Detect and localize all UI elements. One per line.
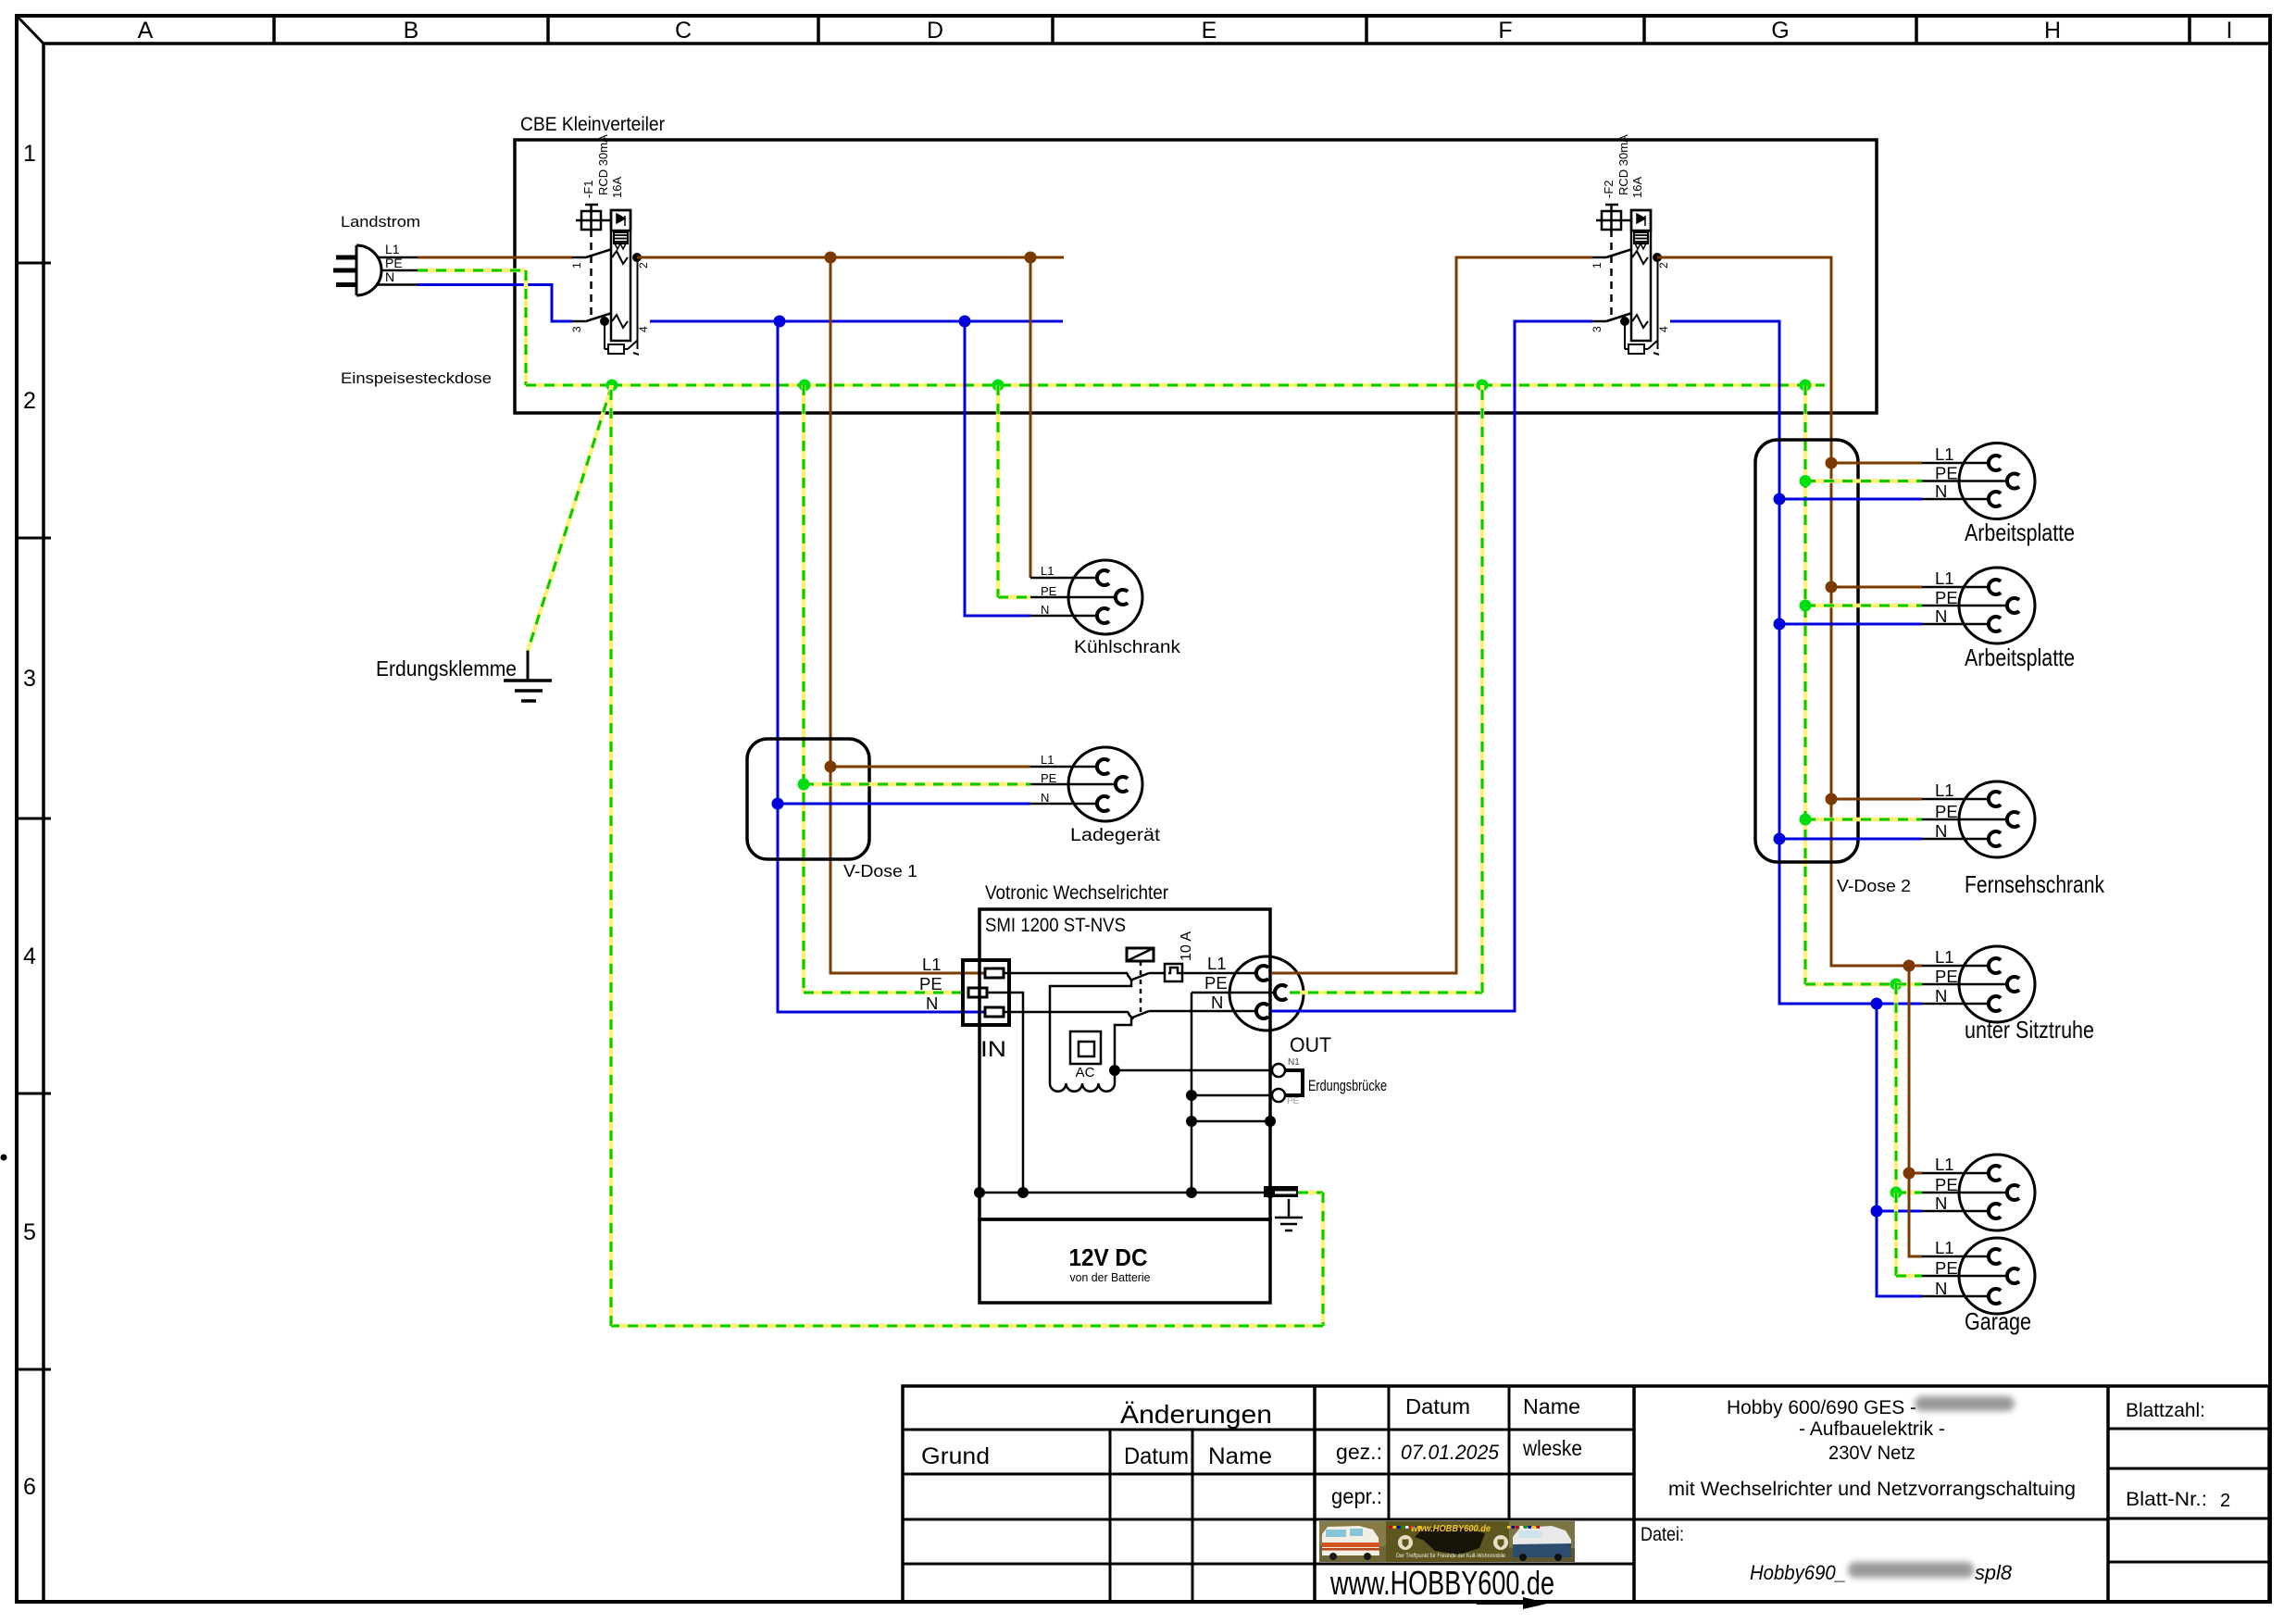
socket unter Sitztruhe L1 contact prong (1989, 958, 2001, 973)
wire PE green to Arbeitsplatte2 (1805, 604, 1922, 608)
svg-text:L1: L1 (1935, 568, 1954, 588)
junction dot brown unter Sitztruhe (1903, 960, 1915, 972)
junction dot green Arbeitsplatte2 (1800, 600, 1812, 612)
socket Ladegerät PE stub wire (1030, 783, 1116, 786)
junction dot pole 2 -F2 (1653, 253, 1662, 262)
-F2 magnetic trip element (1631, 210, 1651, 231)
svg-text:Blattzahl:: Blattzahl: (2126, 1400, 2205, 1421)
svg-text:Änderungen: Änderungen (1120, 1400, 1272, 1429)
frame header band bottom line (44, 42, 2270, 45)
terminal PE (Erdungsbruecke) (1272, 1089, 1285, 1102)
wire L1 inside inverter to changeover (1004, 972, 1128, 975)
title block outer (903, 1386, 2269, 1602)
socket Ladegerät L1 contact prong (1097, 759, 1109, 774)
wire stubs unter Sitztruhe (1909, 965, 1922, 968)
svg-text:SMI 1200 ST-NVS: SMI 1200 ST-NVS (985, 915, 1126, 936)
wire L1 brown feeder x=897 (830, 257, 985, 973)
wire L1 brown OUT to F2 (1271, 257, 1592, 973)
junction dot brown Fernsehschrank (1826, 793, 1838, 806)
socket Arbeitsplatte1 L1 contact prong (1989, 456, 2001, 470)
-F2 test resistor (1628, 344, 1644, 354)
title block horizontals left (903, 1429, 1634, 1431)
svg-text:6: 6 (23, 1474, 36, 1500)
wire N blue to Arbeitsplatte1 (1779, 498, 1922, 501)
socket Kühlschrank PE stub wire (1030, 596, 1116, 599)
wire N blue to Fernsehschrank (1779, 838, 1922, 841)
svg-text:Landstrom: Landstrom (341, 213, 420, 231)
junction dot PE bus x=1078 (992, 380, 1004, 392)
svg-text:5: 5 (23, 1219, 36, 1245)
socket Arbeitsplatte1 N stub wire (1922, 498, 1989, 501)
svg-text:PE: PE (1287, 1096, 1300, 1106)
junction dot 1287,1211 (1186, 1116, 1197, 1127)
frame left band right line (42, 44, 45, 1602)
junction dot bus 1058 (974, 1187, 985, 1198)
plug stub PE (381, 269, 418, 272)
socket Ladegerät: circle (1068, 747, 1142, 821)
junction dot blue bus x=1042 (959, 316, 971, 328)
svg-text:L1: L1 (922, 955, 942, 974)
-F1 test switch blade (624, 348, 628, 350)
socket unter Sitztruhe N stub wire (1922, 1003, 1989, 1006)
junction dot bus 1287 (1186, 1187, 1197, 1198)
junction dot PE bus x=869 (799, 380, 811, 392)
svg-text:Name: Name (1523, 1394, 1580, 1418)
wire N blue F2 to V-Dose2 (1670, 321, 1877, 1004)
svg-text:mit Wechselrichter und Netzvor: mit Wechselrichter und Netzvorrangschalt… (1668, 1479, 2076, 1500)
junction dot green V-Dose1 (798, 779, 810, 791)
socket Ladegerät L1 stub wire (1030, 766, 1097, 768)
socket Kühlschrank L1 contact prong (1097, 570, 1109, 585)
socket unter Sitztruhe: circle (1959, 946, 2035, 1022)
svg-text:Blatt-Nr.:: Blatt-Nr.: (2126, 1489, 2207, 1510)
svg-text:Datum: Datum (1405, 1394, 1470, 1418)
socket Kühlschrank L1 stub wire (1030, 577, 1097, 580)
svg-text:2: 2 (1657, 262, 1670, 269)
svg-text:N: N (385, 269, 394, 284)
frame corner diagonal (17, 16, 44, 44)
svg-text:L1: L1 (1041, 564, 1054, 578)
wire L1 brown to Ladegeraet (830, 766, 1030, 768)
-F1 magnetic trip element (611, 210, 630, 231)
svg-text:4: 4 (1657, 326, 1670, 332)
junction dot blue Garage1 (1871, 1206, 1883, 1218)
svg-text:www.HOBBY600.de: www.HOBBY600.de (1411, 1523, 1491, 1534)
junction dot green Fernsehschrank (1800, 814, 1812, 826)
-F2 breaker body (1631, 210, 1651, 341)
header column separator x=884 (817, 16, 820, 44)
svg-text:Arbeitsplatte: Arbeitsplatte (1965, 643, 2075, 671)
wire PE inside inverter down to chassis bus (987, 993, 1023, 1193)
junction dot brown Arbeitsplatte1 (1826, 457, 1838, 469)
svg-text:07.01.2025: 07.01.2025 (1401, 1441, 1500, 1464)
svg-text:V-Dose 1: V-Dose 1 (843, 862, 917, 881)
blurred filename part (1848, 1562, 1974, 1578)
svg-text:1: 1 (1591, 262, 1603, 269)
svg-text:L1: L1 (1935, 1155, 1954, 1174)
IN contact slot PE (968, 988, 987, 997)
wire L1 brown to Arbeitsplatte1 (1831, 462, 1922, 465)
wire L1 brown down to Garage2 (1909, 1173, 1922, 1256)
socket Garage2 N contact prong (1989, 1289, 2001, 1304)
socket Garage2 N stub wire (1922, 1295, 1989, 1298)
wire L1 brown F2 to V-Dose2 (1657, 257, 1909, 966)
changeover switch L1 blade (1132, 973, 1149, 980)
svg-text:IN: IN (980, 1037, 1006, 1062)
socket unter Sitztruhe L1 stub wire (1922, 965, 1989, 968)
svg-text:PE: PE (1935, 1175, 1958, 1194)
svg-text:wleske: wleske (1522, 1436, 1582, 1460)
svg-text:2: 2 (2220, 1491, 2230, 1511)
wire PE green down to Garage1 (1894, 984, 1899, 1193)
wire PE green OUT to PE bus (1290, 991, 1482, 995)
svg-text:AC: AC (1076, 1065, 1095, 1081)
socket Fernsehschrank N contact prong (1989, 831, 2001, 846)
socket Garage1 PE contact prong (2007, 1185, 2019, 1200)
AC throw wire N (1115, 1018, 1131, 1083)
socket unter Sitztruhe PE stub wire (1922, 983, 2007, 986)
svg-text:gepr.:: gepr.: (1331, 1484, 1382, 1508)
wire L1 brown to Fernsehschrank (1831, 798, 1922, 801)
svg-text:Grund: Grund (921, 1443, 990, 1469)
socket Arbeitsplatte2 L1 stub wire (1922, 586, 1989, 589)
IN contact slot N (985, 1007, 1004, 1017)
svg-text:N: N (1935, 821, 1947, 841)
svg-text:N: N (1041, 791, 1049, 805)
socket Garage1 N stub wire (1922, 1210, 1989, 1213)
wire N blue feeder x=1042 (965, 321, 1030, 616)
wire PE diagonal to earth clamp (528, 385, 612, 651)
junction dot PE bus x=661 (606, 380, 618, 392)
terminal N1 (1272, 1064, 1285, 1077)
socket unter Sitztruhe PE contact prong (2007, 977, 2019, 992)
socket Fernsehschrank PE stub wire (1922, 818, 2007, 821)
plug stub L1 (377, 256, 418, 259)
socket Garage1 L1 stub wire (1922, 1172, 1989, 1175)
OUT N prong (1256, 1004, 1268, 1018)
svg-text:Kühlschrank: Kühlschrank (1074, 638, 1181, 657)
socket Arbeitsplatte1 PE contact prong (2007, 474, 2019, 489)
socket Fernsehschrank: circle (1959, 781, 2035, 857)
header column separator x=592 (546, 16, 550, 44)
relay coil K1 (1127, 948, 1154, 961)
svg-text:Erdungsbrücke: Erdungsbrücke (1308, 1077, 1387, 1094)
wire L1 brown to unter Sitztruhe (1830, 839, 1832, 966)
wire PE green-yellow bus (612, 383, 1825, 388)
wire PE corner to OUT socket (1192, 992, 1275, 994)
wire L1 brown plug to F1 (418, 256, 572, 259)
socket Ladegerät N contact prong (1097, 796, 1109, 811)
svg-text:1: 1 (23, 141, 36, 167)
wire PE vertical to PE terminal (1192, 1094, 1272, 1097)
socket Arbeitsplatte1 PE stub wire (1922, 480, 2007, 482)
svg-text:Garage: Garage (1965, 1307, 2031, 1335)
svg-text:L1: L1 (1935, 947, 1954, 967)
header column separator x=296 (272, 16, 276, 44)
wire PE green to Ladegeraet (804, 782, 1030, 787)
wire L1 changeover to fuse (1149, 972, 1165, 975)
svg-text:- Aufbauelektrik -: - Aufbauelektrik - (1799, 1418, 1945, 1440)
svg-text:OUT: OUT (1290, 1033, 1331, 1056)
svg-text:Datum: Datum (1124, 1443, 1189, 1469)
svg-text:N: N (926, 993, 938, 1013)
svg-text:C: C (675, 18, 692, 44)
svg-text:1: 1 (570, 262, 583, 269)
junction box V-Dose 2 (1755, 440, 1858, 862)
-F2 mechanical link dashed (1610, 230, 1613, 316)
OUT PE prong (1275, 985, 1287, 1000)
wire N blue to Ladegeraet (778, 803, 1030, 806)
svg-text:Erdungsklemme: Erdungsklemme (376, 656, 517, 681)
header column separator x=1137 (1051, 16, 1054, 44)
wire N blue to Arbeitsplatte2 (1779, 623, 1922, 626)
junction dot 1370,1211 (1265, 1116, 1276, 1127)
-F1 test resistor (608, 344, 624, 354)
svg-text:PE: PE (1041, 771, 1057, 785)
-F1 pole 1-2 contact (572, 256, 586, 259)
svg-text:12V DC: 12V DC (1069, 1243, 1148, 1271)
header column separator x=1776 (1642, 16, 1646, 44)
left band row separator y=1479 (17, 1368, 51, 1371)
socket Garage2 PE stub wire (1922, 1275, 2007, 1278)
svg-text:3: 3 (23, 666, 36, 692)
junction dot bus 1105 (1017, 1187, 1029, 1198)
-F2 pole 1-2 contact (1592, 256, 1606, 259)
junction dot brown Garage1 (1903, 1168, 1915, 1180)
socket Fernsehschrank L1 contact prong (1989, 792, 2001, 806)
wire N1 from AC to Erdungsbruecke (1115, 1069, 1272, 1072)
wire PE green bus to V-Dose2 (1803, 385, 1808, 984)
-F2 test button (1602, 211, 1621, 230)
svg-text:N: N (1935, 481, 1947, 501)
junction dot green Arbeitsplatte1 (1800, 475, 1812, 487)
-F2 test circuit wire (1657, 257, 1659, 349)
socket Kühlschrank N stub wire (1030, 615, 1097, 618)
socket Fernsehschrank N stub wire (1922, 838, 1989, 841)
junction dot blue Arbeitsplatte2 (1774, 618, 1786, 631)
wire N blue down to Garage2 (1877, 1211, 1922, 1296)
socket Ladegerät PE contact prong (1116, 777, 1128, 792)
svg-text:unter Sitztruhe: unter Sitztruhe (1965, 1016, 2094, 1043)
stray dot left margin (1, 1155, 7, 1161)
svg-text:Ladegerät: Ladegerät (1070, 826, 1161, 845)
svg-text:Hobby690_: Hobby690_ (1750, 1561, 1846, 1584)
wire L1 fuse to OUT socket (1182, 972, 1257, 975)
socket Garage2 L1 stub wire (1922, 1255, 1989, 1258)
svg-text:A: A (138, 18, 154, 44)
AC throw wire L1 (1050, 980, 1131, 1083)
svg-text:2: 2 (23, 388, 36, 414)
svg-text:N1: N1 (1288, 1057, 1300, 1068)
wire L1 brown bus after F1 (637, 256, 1064, 259)
svg-text:L1: L1 (1041, 753, 1054, 767)
socket Garage1 N contact prong (1989, 1204, 2001, 1218)
svg-text:2: 2 (637, 262, 650, 269)
svg-text:gez.:: gez.: (1336, 1440, 1382, 1464)
junction dot pole 3 -F2 (1620, 317, 1629, 326)
socket Arbeitsplatte1 N contact prong (1989, 492, 2001, 506)
left band row separator y=884 (17, 818, 51, 820)
junction dot AC output (1109, 1065, 1120, 1076)
socket Arbeitsplatte1: circle (1959, 443, 2035, 519)
junction dot pole 3 -F1 (600, 317, 609, 326)
-F1 breaker body (611, 210, 630, 341)
wire OUT body earth down (1269, 1031, 1272, 1193)
junction dot PE bus x=1601 (1477, 380, 1489, 392)
header column separator x=1476 (1365, 16, 1368, 44)
svg-text:PE: PE (919, 974, 942, 993)
svg-text:-F2: -F2 (1602, 181, 1616, 199)
junction dot brown V-Dose1 (825, 761, 837, 773)
wire PE green-yellow chassis return loop (1298, 1191, 1323, 1195)
wire PE green-yellow plug to bus (418, 269, 526, 273)
socket Fernsehschrank PE contact prong (2007, 812, 2019, 827)
svg-text:Einspeisesteckdose: Einspeisesteckdose (341, 369, 492, 387)
svg-text:CBE Kleinverteiler: CBE Kleinverteiler (520, 114, 665, 135)
socket Arbeitsplatte2 PE stub wire (1922, 605, 2007, 607)
svg-text:N: N (1935, 986, 1947, 1006)
-F1 mechanical link dashed (590, 230, 593, 316)
wire PE green down to Garage2 (1894, 1193, 1899, 1276)
socket Arbeitsplatte2 N stub wire (1922, 623, 1989, 626)
header column separator x=2365 (2188, 16, 2191, 44)
wire PE green to Arbeitsplatte1 (1805, 479, 1922, 483)
left band row separator y=581 (17, 537, 51, 540)
socket Garage1 PE stub wire (1922, 1192, 2007, 1194)
svg-text:4: 4 (23, 943, 36, 969)
wire PE green to Fernsehschrank (1805, 818, 1922, 822)
inverter box SMI 1200 ST-NVS (980, 909, 1270, 1219)
socket Garage1 L1 contact prong (1989, 1166, 2001, 1181)
svg-text:230V Netz: 230V Netz (1828, 1443, 1915, 1464)
12V DC battery box (980, 1219, 1270, 1303)
wire N blue plug step to F1 (418, 285, 572, 322)
svg-text:N: N (1935, 1193, 1947, 1213)
wire PE green feeder x=1078 (996, 385, 1001, 597)
fuse F3 10A (1165, 964, 1182, 981)
junction dot blue unter Sitztruhe (1871, 998, 1883, 1010)
logo banner www.HOBBY600.de (1319, 1521, 1575, 1562)
junction box V-Dose 1 (747, 739, 869, 859)
socket Arbeitsplatte2: circle (1959, 568, 2035, 643)
junction dot green unter Sitztruhe (1890, 979, 1903, 991)
junction dot bus 1370 (1265, 1187, 1276, 1198)
wire L1 brown to Arbeitsplatte2 (1831, 586, 1922, 589)
svg-text:Der Treffpunkt für Freunde der: Der Treffpunkt für Freunde der Kult-Wohn… (1396, 1553, 1505, 1559)
svg-text:I: I (2227, 18, 2233, 44)
svg-text:V-Dose 2: V-Dose 2 (1837, 877, 1911, 895)
svg-text:PE: PE (1935, 967, 1958, 986)
wire PE green feeder x=868 (802, 385, 806, 993)
wire L1 brown feeder x=1113 (1029, 257, 1032, 578)
IN connector (963, 960, 1009, 1025)
svg-text:PE: PE (385, 256, 403, 270)
svg-text:G: G (1771, 18, 1789, 44)
changeover switch N blade (1132, 1011, 1149, 1018)
wire N changeover to OUT socket (1149, 1010, 1257, 1013)
plug prong L1 (336, 256, 356, 260)
junction dot blue Fernsehschrank (1774, 833, 1786, 845)
socket Ladegerät N stub wire (1030, 803, 1097, 806)
plug prong N (336, 282, 356, 287)
svg-text:PE: PE (1041, 584, 1057, 598)
svg-text:PE: PE (1935, 464, 1958, 483)
junction dot blue Arbeitsplatte1 (1774, 493, 1786, 506)
AC transformer windings (1050, 1083, 1115, 1092)
left band row separator y=284 (17, 262, 51, 265)
title block verticals (1109, 1430, 1112, 1602)
junction dot brown bus x=897 (825, 252, 837, 264)
svg-text:4: 4 (637, 326, 650, 332)
-F2 thermal element hatched (1634, 232, 1648, 244)
svg-text:N: N (1935, 1279, 1947, 1298)
-F2 pole 3-4 contact (1592, 320, 1606, 323)
svg-text:RCD 30mA: RCD 30mA (596, 134, 610, 195)
junction dot blue V-Dose1 (772, 798, 784, 810)
svg-text:L1: L1 (1935, 1238, 1954, 1257)
svg-text:16A: 16A (1630, 177, 1644, 198)
plug prong PE (333, 269, 356, 273)
svg-text:von der Batterie: von der Batterie (1070, 1270, 1151, 1284)
svg-text:Votronic Wechselrichter: Votronic Wechselrichter (985, 882, 1168, 904)
chassis clamp bar (1264, 1186, 1298, 1197)
-F1 thermal element hatched (614, 232, 628, 244)
junction dot PE bus x=1950 (1800, 380, 1812, 392)
wire N blue bus after F1 (650, 320, 1063, 323)
socket Garage2: circle (1959, 1238, 2035, 1314)
cursor arrow (1523, 1597, 1549, 1609)
svg-text:Fernsehschrank: Fernsehschrank (1965, 870, 2105, 898)
-F2 test switch blade (1644, 348, 1648, 350)
svg-text:PE: PE (1935, 1258, 1958, 1278)
plug stub N (377, 283, 418, 286)
junction dot PE 1183 (1186, 1090, 1197, 1101)
socket Garage2 PE contact prong (2007, 1268, 2019, 1283)
mains plug Einspeisesteckdose symbol (356, 245, 381, 295)
wire L1 brown down to Garage1 (1909, 966, 1922, 1173)
left band row separator y=1181 (17, 1093, 51, 1095)
-F1 pole 3-4 contact (572, 320, 586, 323)
svg-text:10 A: 10 A (1179, 931, 1194, 961)
junction dot pole 2 -F1 (632, 253, 642, 262)
chassis ground symbol (1288, 1199, 1291, 1218)
svg-text:PE: PE (1935, 802, 1958, 821)
IN contact slot L1 (985, 968, 1004, 978)
OUT L1 prong (1256, 966, 1268, 981)
socket Garage1: circle (1959, 1155, 2035, 1230)
wire N blue OUT to F2 (1271, 321, 1592, 1011)
svg-text:L1: L1 (1207, 954, 1227, 973)
socket Kühlschrank N contact prong (1097, 608, 1109, 623)
svg-text:Arbeitsplatte: Arbeitsplatte (1965, 518, 2075, 546)
svg-text:N: N (1935, 606, 1947, 626)
svg-text:PE: PE (1935, 588, 1958, 607)
socket Kühlschrank: circle (1068, 560, 1142, 634)
chassis bus wire (980, 1192, 1270, 1194)
header column separator x=2070 (1915, 16, 1918, 44)
svg-text:3: 3 (1591, 326, 1603, 332)
svg-text:D: D (927, 18, 943, 44)
junction dot brown bus x=1113 (1025, 252, 1037, 264)
socket Arbeitsplatte2 L1 contact prong (1989, 580, 2001, 594)
socket Kühlschrank PE contact prong (1116, 590, 1128, 605)
title block horizontals right column (2108, 1428, 2269, 1430)
svg-text:N: N (1211, 993, 1223, 1012)
-F1 test button (581, 211, 601, 230)
socket Arbeitsplatte2 PE contact prong (2007, 598, 2019, 613)
OUT socket circle (1229, 956, 1304, 1031)
svg-text:3: 3 (570, 326, 583, 332)
